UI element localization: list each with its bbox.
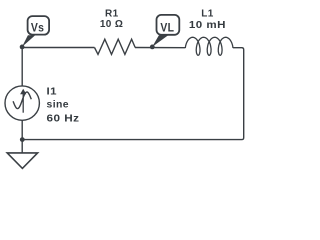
wire top from node Vs to resistor R1 bbox=[22, 47, 94, 49]
wire left from node Vs down to source I1 bbox=[21, 48, 23, 86]
svg-text:sine: sine bbox=[47, 99, 70, 110]
svg-text:I1: I1 bbox=[47, 86, 58, 97]
node Vs callout tail bbox=[22, 35, 35, 47]
source I1 arrow head bbox=[20, 89, 26, 95]
node VL junction dot bbox=[150, 45, 155, 50]
ground junction dot bbox=[20, 137, 25, 142]
wire from resistor R1 to node VL to inductor L1 bbox=[135, 47, 185, 49]
svg-text:10 Ω: 10 Ω bbox=[100, 19, 124, 30]
node Vs junction dot bbox=[20, 45, 25, 50]
resistor R1 zigzag bbox=[95, 39, 136, 54]
wire right side from inductor L1 down to bottom bbox=[22, 48, 243, 140]
wire from source I1 bottom to ground junction bbox=[21, 121, 23, 153]
svg-text:L1: L1 bbox=[201, 8, 214, 19]
source I1 arrow shaft bbox=[22, 94, 24, 113]
node VL label box bbox=[157, 15, 180, 35]
source I1 sine wave bbox=[13, 92, 31, 109]
inductor L1 coil bbox=[185, 37, 233, 55]
node VL callout tail bbox=[152, 35, 168, 47]
ground symbol bbox=[7, 153, 37, 169]
svg-text:R1: R1 bbox=[105, 8, 119, 19]
svg-text:VL: VL bbox=[160, 23, 174, 35]
node Vs label box bbox=[28, 16, 49, 34]
svg-text:Vs: Vs bbox=[31, 23, 45, 35]
source I1 circle bbox=[5, 86, 39, 120]
svg-text:60 Hz: 60 Hz bbox=[47, 113, 80, 124]
svg-text:10 mH: 10 mH bbox=[189, 20, 226, 31]
